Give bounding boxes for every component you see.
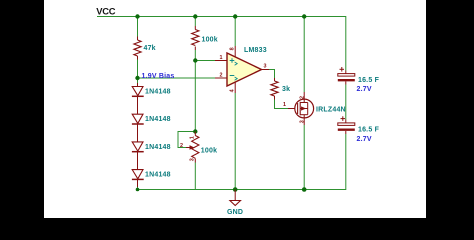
svg-text:4: 4	[229, 89, 235, 92]
svg-text:2: 2	[299, 96, 305, 99]
svg-text:47k: 47k	[144, 45, 156, 52]
wire op-amp V- to ground rail	[234, 93, 236, 190]
capacitor C1 16.5F	[338, 67, 355, 85]
junction ground rail at MOSFET source	[302, 187, 307, 192]
junction top rail at MOSFET drain	[302, 14, 306, 18]
resistor R3 3k	[271, 78, 278, 100]
svg-text:IRLZ44N: IRLZ44N	[316, 107, 346, 114]
power symbol GND	[230, 190, 241, 206]
wire 100k bottom vertical to pot	[194, 50, 196, 132]
svg-text:3: 3	[264, 64, 267, 70]
wire between capacitors	[345, 85, 347, 120]
wire node to op-amp non-inverting input	[195, 60, 215, 62]
svg-text:100k: 100k	[202, 37, 218, 44]
resistor R1 47k	[134, 37, 141, 60]
svg-text:1: 1	[283, 102, 286, 108]
svg-text:100k: 100k	[201, 148, 217, 155]
svg-text:LM833: LM833	[244, 47, 267, 54]
junction top rail at 100k	[193, 14, 197, 18]
svg-text:1.9V Bias: 1.9V Bias	[142, 73, 175, 80]
potentiometer RV1 100k	[186, 132, 199, 163]
transistor Q1 IRLZ44N	[288, 92, 314, 125]
junction 100k bottom	[193, 58, 197, 62]
wire 47k top branch	[137, 17, 139, 37]
diode D4 1N4148	[132, 170, 144, 187]
svg-text:2: 2	[180, 143, 183, 149]
svg-text:3: 3	[189, 158, 195, 161]
svg-text:1N4148: 1N4148	[145, 116, 171, 123]
svg-text:1N4148: 1N4148	[145, 89, 171, 96]
svg-text:16.5 F: 16.5 F	[358, 77, 380, 84]
wire op-amp V+ branch	[234, 17, 236, 47]
wire 100k top branch	[194, 17, 196, 27]
svg-text:2.7V: 2.7V	[357, 136, 372, 143]
svg-text:8: 8	[229, 47, 235, 50]
svg-text:VCC: VCC	[96, 5, 115, 16]
wire ground rail bottom	[138, 134, 346, 190]
svg-text:3: 3	[299, 120, 305, 123]
svg-text:1: 1	[220, 55, 223, 61]
svg-text:GND: GND	[227, 209, 243, 216]
svg-text:2.7V: 2.7V	[357, 86, 372, 93]
op-amp U1 LM833	[215, 46, 269, 93]
wire 3k to MOSFET gate	[275, 100, 289, 109]
wire pot bottom to ground rail	[194, 163, 196, 190]
diode D2 1N4148	[132, 114, 144, 142]
wire VCC rail top	[97, 17, 346, 71]
svg-text:2: 2	[220, 73, 223, 79]
diode D1 1N4148	[132, 83, 144, 114]
wire bias node to op-amp inverting input	[138, 77, 216, 79]
svg-text:16.5 F: 16.5 F	[358, 127, 380, 134]
junction top rail at op-amp V+	[233, 14, 237, 18]
junction top rail at 47k	[135, 14, 139, 18]
wire op-amp output to 3k	[269, 70, 275, 79]
wire pot wiper loop	[178, 132, 195, 148]
junction ground rail at GND	[233, 187, 238, 192]
wire MOSFET drain branch	[303, 17, 305, 93]
wire MOSFET source to ground rail	[303, 125, 305, 190]
svg-text:1N4148: 1N4148	[145, 172, 171, 179]
resistor R2 100k	[192, 26, 199, 50]
junction pot top	[193, 129, 197, 133]
svg-text:1N4148: 1N4148	[145, 144, 171, 151]
junction ground rail left	[136, 188, 140, 192]
diode D3 1N4148	[132, 142, 144, 170]
wire 47k bottom to bias node	[137, 60, 139, 84]
junction node 1.9V bias	[135, 76, 139, 80]
svg-text:3k: 3k	[282, 86, 290, 93]
svg-text:1: 1	[189, 136, 195, 139]
capacitor C2 16.5F	[338, 116, 355, 134]
